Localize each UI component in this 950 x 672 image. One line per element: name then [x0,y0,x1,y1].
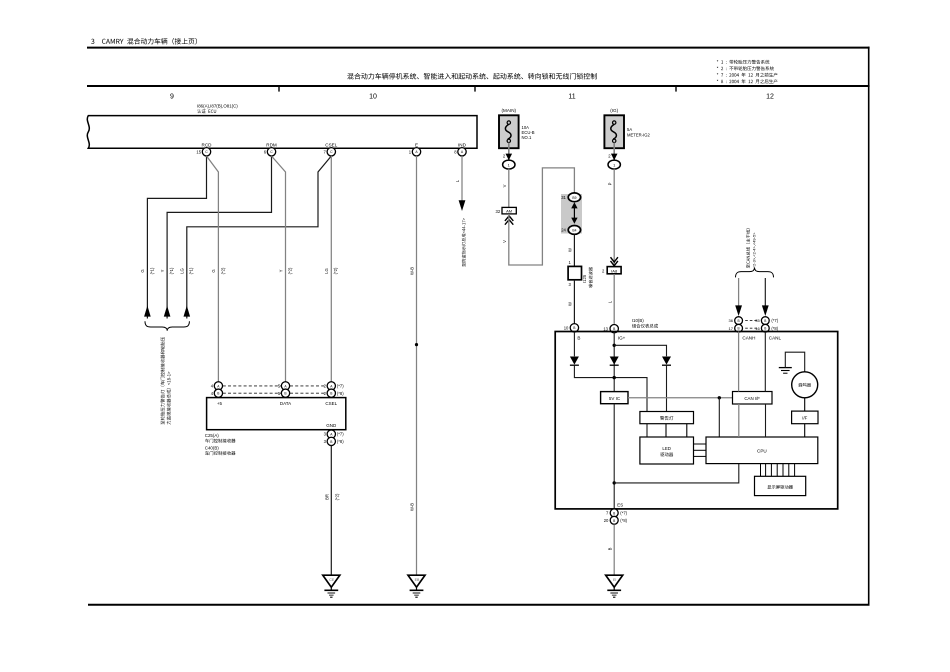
svg-text:C40(B): C40(B) [205,446,219,451]
noise filter I125 [568,266,581,279]
wire RDM to tire-warning (Y *1) [167,156,271,319]
wire I/F to CPU [804,424,806,437]
door receiver pin pair DATA [281,382,289,390]
ground CE [323,575,340,587]
svg-text:(*2): (*2) [287,267,292,274]
svg-text:W: W [568,302,573,306]
off-page arrow 1 [144,306,151,317]
svg-text:ES: ES [617,502,623,507]
meter pin IG+ connector [610,325,618,333]
svg-text:(*1): (*1) [189,267,194,274]
header band rule [87,85,870,87]
connector pair oval 31 [568,193,580,202]
svg-text:IG+: IG+ [618,335,626,340]
svg-text:CPU: CPU [757,449,767,454]
wire color labels *1 *2 [140,269,145,272]
chevron connector marks down [611,257,618,262]
svg-text:LG: LG [324,268,329,274]
brace under arrows [145,321,189,331]
wire IND (L) with arrow to A/C panel [461,156,463,201]
svg-text:(*2): (*2) [334,493,339,500]
combination meter box [555,332,838,509]
wire to CPU bottom [614,464,739,483]
connector pair arrows [571,202,577,208]
wire door receiver GND (BR *2) [330,446,332,576]
svg-text:Y: Y [278,269,283,272]
svg-text:(*2): (*2) [333,267,338,274]
svg-text:IND: IND [458,142,467,147]
svg-text:LED: LED [662,446,671,451]
svg-text:EB: EB [415,578,420,582]
svg-text:CE: CE [329,578,335,582]
wire buzzer to I/F [804,398,806,411]
wire IG internal with diode [613,332,615,392]
wire V from MAIN fuse [508,169,510,207]
wire P from IG fuse [613,169,615,267]
svg-text:B: B [738,327,740,331]
svg-text:B: B [764,327,766,331]
meter CANH pin pair [735,317,743,325]
bus CPU to display driver [760,464,762,477]
svg-text:AM: AM [506,209,512,214]
svg-text:15: 15 [196,149,201,154]
wires warning lamp to LED driver [665,424,667,437]
5V IC [601,392,628,404]
svg-text:I10(B): I10(B) [632,318,644,323]
door receiver GND pins [327,430,335,438]
LED driver box [640,437,694,464]
ground EI [606,575,623,587]
svg-text:(*1): (*1) [169,267,174,274]
svg-text:(*8): (*8) [620,518,627,523]
brace over CAN wires [736,268,774,278]
system header text [347,73,353,79]
svg-text:B9: B9 [572,196,576,200]
svg-text:Y: Y [160,269,165,272]
svg-text:I86(A),I87(B),O81(C): I86(A),I87(B),O81(C) [197,104,238,109]
svg-text:<2-3>,<2-4>,<49-5>: <2-3>,<2-4>,<49-5> [752,232,757,268]
wire W to meter pin B [573,280,575,324]
svg-text:W-B: W-B [409,503,414,511]
wire RCD to door receiver +5 (G *2) [207,156,219,382]
svg-text:I/F: I/F [802,416,807,421]
destination label tire pressure warning [161,337,165,425]
svg-text:13: 13 [603,326,608,331]
in-line connector AM pin 32 [502,207,516,214]
svg-text:(*8): (*8) [337,439,344,444]
wire 5V IC to CAN I/F [628,397,733,399]
wire RCD to tire-warning (G *1) [147,156,206,319]
svg-text:BR: BR [325,494,330,500]
wire W to noise filter [573,234,575,266]
door receiver pin pair +5 [223,385,281,387]
svg-text:V: V [502,184,507,187]
wire CANH internal [738,332,740,392]
svg-text:20: 20 [604,518,609,523]
dashes between CAN pin pairs [745,320,758,322]
svg-text:NO.1: NO.1 [522,135,532,140]
svg-text:B: B [613,519,615,523]
CAN I/F box [733,392,773,405]
wire V routed right and up to connector pair [509,168,575,265]
svg-text:CSEL: CSEL [325,401,337,406]
svg-text:(IG): (IG) [610,108,618,113]
bus LED driver to CPU [694,443,707,445]
wire CSEL to door receiver CSEL (LG *2) [330,156,332,382]
svg-text:32: 32 [496,209,501,214]
top rule [87,47,870,49]
svg-text:(MAIN): (MAIN) [502,108,517,113]
svg-text:12: 12 [766,94,774,101]
connector pair shading [561,194,582,234]
svg-text:17: 17 [729,326,734,331]
ground EB [408,575,425,587]
svg-text:(*7): (*7) [337,384,344,389]
wire junction to CPU [718,398,720,437]
wire CSEL to tire-warning (LG *1) [187,156,331,319]
svg-text:W: W [568,248,573,252]
svg-text:LG: LG [180,268,185,274]
right page border [868,47,870,605]
svg-text:C25(A): C25(A) [205,433,219,438]
wire ES to ground [613,524,615,575]
wire E to ground (W-B) [416,156,418,575]
svg-text:24: 24 [561,228,566,233]
svg-text:B: B [608,547,613,550]
svg-text:(*2): (*2) [220,267,225,274]
svg-text:I125: I125 [582,274,587,283]
svg-text:CANH: CANH [742,335,755,340]
svg-text:B: B [613,511,615,515]
svg-text:B4: B4 [572,229,576,233]
svg-text:V: V [502,240,507,243]
svg-text:E: E [415,142,418,147]
I/F box [792,411,818,424]
ECU U1 certification ECU box [87,116,477,149]
svg-text:10: 10 [564,325,569,330]
buzzer [792,372,818,398]
meter pin B connector [570,324,578,332]
svg-text:5V IC: 5V IC [609,396,621,401]
junction connector IA8 pin 2 [607,267,621,274]
display driver box [755,476,806,495]
svg-text:B: B [738,319,740,323]
wire L to meter pin IG+ [613,274,615,324]
svg-text:(*8): (*8) [771,326,778,331]
svg-text:B: B [764,319,766,323]
wire RDM to door receiver DATA (Y *2) [272,156,286,382]
door control receiver box [207,398,346,430]
bottom page border [88,604,870,606]
connector pair oval 24 [568,226,580,235]
svg-text:CAN I/F: CAN I/F [744,396,760,401]
svg-text:10: 10 [369,94,377,101]
svg-text:METER-IG2: METER-IG2 [627,132,650,137]
svg-text:IA8: IA8 [611,268,618,273]
svg-text:DATA: DATA [280,401,291,406]
svg-text:B: B [577,335,580,340]
meter CANL pin pair [761,317,769,325]
svg-text:(*8): (*8) [337,391,344,396]
svg-text:EI: EI [613,578,616,582]
svg-text:11: 11 [568,94,575,101]
svg-text:(*1): (*1) [149,267,154,274]
svg-text:(*7): (*7) [620,511,627,516]
svg-text:9: 9 [170,94,174,101]
wire CANL internal [764,332,766,392]
legend notes [717,60,719,61]
off-page arrow 2 [164,306,171,317]
svg-text:G: G [211,269,216,272]
svg-text:RCD: RCD [202,142,213,147]
wire IG branch to warning lamp diode [614,345,666,356]
svg-text:36: 36 [729,318,734,323]
wire CANH external [738,278,740,306]
svg-text:CSEL: CSEL [325,142,337,147]
chevron connector marks up [505,216,513,221]
svg-text:(*7): (*7) [771,318,778,323]
wire B internal with diode [573,332,575,357]
destination label security indicator [462,218,466,267]
wire CANL external [764,278,766,306]
off-page arrow 3 [184,306,191,317]
internal ground [779,367,792,369]
door receiver pin pair CSEL [327,382,335,390]
svg-text:+5: +5 [217,401,223,406]
svg-text:W-B: W-B [409,267,414,275]
svg-text:CANL: CANL [769,335,782,340]
page title [91,39,94,44]
destination label CAN trunk [746,228,750,268]
svg-text:P: P [608,182,613,185]
wire IG down to ES [613,404,615,509]
svg-text:(*7): (*7) [337,432,344,437]
svg-text:GND: GND [326,423,337,428]
svg-text:G: G [140,269,145,272]
column ticks [278,86,280,92]
svg-text:RDM: RDM [266,142,277,147]
warning lamp box [640,412,694,424]
CPU box [706,437,818,464]
svg-text:31: 31 [561,195,566,200]
